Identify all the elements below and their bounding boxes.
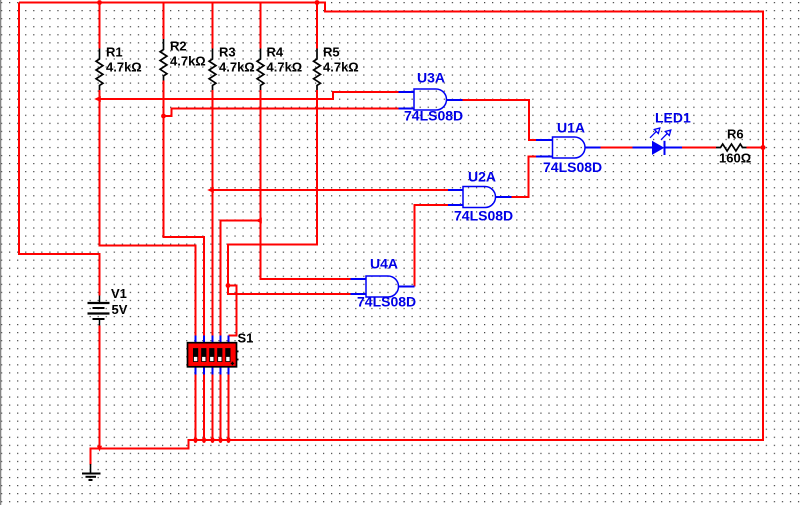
svg-text:S1: S1 [238, 331, 254, 346]
svg-text:U3A: U3A [417, 70, 445, 86]
svg-text:R1: R1 [106, 45, 123, 60]
svg-text:V1: V1 [111, 286, 127, 301]
svg-text:4.7kΩ: 4.7kΩ [106, 60, 142, 75]
svg-text:R6: R6 [727, 127, 744, 142]
svg-text:R3: R3 [219, 45, 236, 60]
svg-text:4.7kΩ: 4.7kΩ [170, 54, 206, 69]
svg-text:4.7kΩ: 4.7kΩ [219, 60, 255, 75]
svg-text:U2A: U2A [468, 169, 496, 185]
svg-text:74LS08D: 74LS08D [454, 208, 513, 224]
svg-text:R4: R4 [267, 45, 284, 60]
svg-text:74LS08D: 74LS08D [404, 108, 463, 124]
svg-text:4.7kΩ: 4.7kΩ [267, 60, 303, 75]
svg-text:5V: 5V [112, 302, 128, 317]
svg-text:74LS08D: 74LS08D [543, 159, 602, 175]
svg-text:74LS08D: 74LS08D [357, 294, 416, 310]
svg-text:U1A: U1A [557, 120, 585, 136]
svg-text:U4A: U4A [370, 256, 398, 272]
svg-text:160Ω: 160Ω [719, 151, 751, 166]
svg-text:LED1: LED1 [655, 110, 691, 126]
svg-text:R5: R5 [323, 45, 340, 60]
svg-text:R2: R2 [170, 39, 187, 54]
svg-text:4.7kΩ: 4.7kΩ [323, 60, 359, 75]
